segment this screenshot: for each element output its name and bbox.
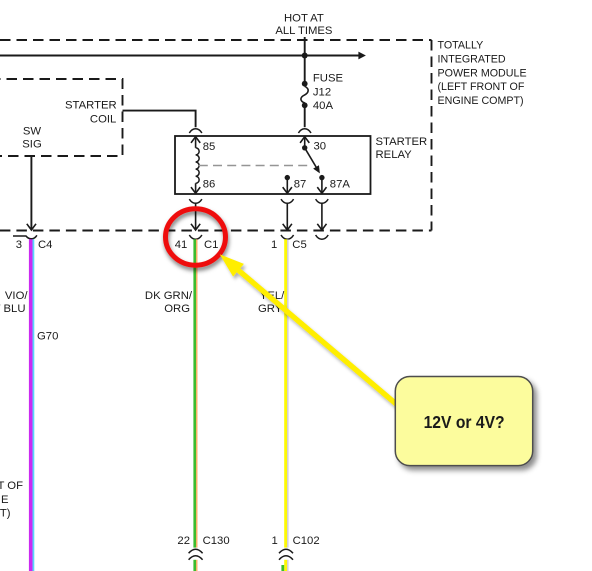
svg-text:C1: C1 xyxy=(204,239,218,251)
relay switch armature 30 to 87A xyxy=(306,150,317,169)
pin 87 terminal arrow down xyxy=(283,180,292,193)
svg-text:STARTER: STARTER xyxy=(376,136,428,148)
wire VIO/LT BLU xyxy=(29,239,34,571)
module TIPM label xyxy=(438,40,527,107)
annotation yellow arrow xyxy=(220,254,401,409)
wire VIO/LT BLU color label xyxy=(0,290,28,315)
wire B+ bus (hot feed) xyxy=(0,37,360,84)
svg-text:SW: SW xyxy=(23,126,42,138)
connector C102 pin 1 labels xyxy=(272,535,320,547)
relay coil terminal pin 85 arrow xyxy=(191,137,200,148)
arrowhead at C5 xyxy=(283,224,292,230)
fuse value label xyxy=(313,72,344,112)
svg-text:1: 1 xyxy=(271,239,277,251)
svg-text:RELAY: RELAY xyxy=(376,149,413,161)
svg-text:12V or 4V?: 12V or 4V? xyxy=(424,412,505,432)
svg-text:22: 22 xyxy=(177,535,190,547)
svg-text:SIG: SIG xyxy=(22,138,41,150)
svg-text:86: 86 xyxy=(203,179,216,191)
relay K1 STARTER RELAY box xyxy=(175,136,371,194)
relay switch armature arrowhead xyxy=(314,166,320,173)
wire YEL/GRN sliver at bottom xyxy=(281,565,284,571)
connector C102 off-page chevrons xyxy=(279,548,293,560)
svg-text:ALL TIMES: ALL TIMES xyxy=(275,25,333,37)
svg-text:FUSE: FUSE xyxy=(313,72,344,84)
connector C5 pin 1 labels xyxy=(271,239,307,251)
svg-text:85: 85 xyxy=(203,141,216,153)
svg-text:C5: C5 xyxy=(292,239,306,251)
module TIPM dashed boundary xyxy=(0,40,432,231)
pin 87 dot xyxy=(285,175,290,180)
connector C5 cup xyxy=(281,235,294,239)
svg-text:FRONT OF: FRONT OF xyxy=(0,480,23,492)
label STARTER RELAY xyxy=(376,136,428,161)
label (left cut) FRONT OF / ENGINE / COMPT) xyxy=(0,480,23,520)
relay internal linkage dashed line xyxy=(199,165,310,167)
relay coil winding xyxy=(196,148,200,184)
wire starter coil to relay pin 85 xyxy=(123,111,196,128)
pin 87A dot xyxy=(319,175,324,180)
wire YEL/GRY xyxy=(284,239,287,571)
svg-text:HOT AT: HOT AT xyxy=(284,12,324,24)
arrowhead at C1 xyxy=(191,224,200,230)
wire 87A stub xyxy=(321,203,323,229)
pin 30 dot xyxy=(302,145,307,150)
connector C1 cup xyxy=(189,235,202,239)
svg-text:3: 3 xyxy=(16,239,22,251)
connector cup below relay (87A) xyxy=(316,199,329,203)
annotation red circle xyxy=(166,209,226,265)
label SW SIG xyxy=(22,126,41,151)
connector C130 pin 22 labels xyxy=(177,535,229,547)
svg-text:C130: C130 xyxy=(203,535,230,547)
svg-text:COIL: COIL xyxy=(90,114,116,126)
pin 87A terminal arrow down xyxy=(317,180,326,193)
connector cup above relay (30) xyxy=(298,129,311,133)
wire SW SIG down xyxy=(30,156,32,229)
svg-text:G70: G70 xyxy=(37,331,58,343)
junction dot on B+ bus xyxy=(302,53,308,59)
wire DK GRN/ORG xyxy=(193,239,197,571)
svg-text:TOTALLY: TOTALLY xyxy=(438,40,484,52)
svg-text:40A: 40A xyxy=(313,100,334,112)
relay contact terminal pin 30 arrow xyxy=(300,137,309,146)
svg-text:POWER MODULE: POWER MODULE xyxy=(438,67,527,79)
svg-text:J12: J12 xyxy=(313,87,331,99)
connector C130 off-page chevrons xyxy=(189,548,203,560)
relay coil terminal pin 86 arrow xyxy=(191,183,200,193)
arrowhead of B+ bus xyxy=(359,52,365,58)
svg-text:STARTER: STARTER xyxy=(65,100,117,112)
wire fuse to relay pin 30 xyxy=(304,108,306,127)
component STARTER COIL dashed box xyxy=(0,79,123,156)
svg-text:LT BLU: LT BLU xyxy=(0,303,26,315)
connector cup 87A below dashed line xyxy=(316,235,329,239)
svg-text:C102: C102 xyxy=(293,535,320,547)
svg-text:(LEFT FRONT OF: (LEFT FRONT OF xyxy=(438,81,525,93)
svg-text:INTEGRATED: INTEGRATED xyxy=(438,54,506,66)
wire DK GRN/ORG color label xyxy=(145,290,193,315)
svg-text:87: 87 xyxy=(294,179,307,191)
connector C1 pin 41 labels xyxy=(175,239,219,251)
svg-text:30: 30 xyxy=(314,141,327,153)
arrowhead 87A stub xyxy=(317,224,326,230)
wire YEL/GRY color label xyxy=(258,290,285,315)
annotation callout 12V or 4V? xyxy=(395,377,532,466)
svg-text:ENGINE COMPT): ENGINE COMPT) xyxy=(438,95,524,107)
arrowhead SW SIG at connector xyxy=(27,224,36,230)
fuse J12 40A xyxy=(301,81,308,108)
svg-text:ENGINE: ENGINE xyxy=(0,494,9,506)
svg-text:ORG: ORG xyxy=(164,303,190,315)
svg-text:1: 1 xyxy=(272,535,278,547)
connector C4 cup with bracket lip to left edge xyxy=(13,235,37,239)
wire 86 to connector C1 xyxy=(195,203,197,229)
svg-text:87A: 87A xyxy=(330,179,351,191)
net HOT AT ALL TIMES label xyxy=(275,12,333,37)
connector cup above relay (85) xyxy=(189,129,202,133)
svg-text:COMPT): COMPT) xyxy=(0,508,11,520)
connector cup below relay (86) xyxy=(189,199,202,203)
svg-text:VIO/: VIO/ xyxy=(5,290,28,302)
connector C4 pin 3 labels xyxy=(16,239,53,251)
svg-text:DK GRN/: DK GRN/ xyxy=(145,290,193,302)
connector cup below relay (87) xyxy=(281,199,294,203)
svg-text:41: 41 xyxy=(175,239,188,251)
label STARTER COIL xyxy=(65,100,117,126)
svg-text:C4: C4 xyxy=(38,239,52,251)
wire 87 to connector C5 xyxy=(286,203,288,229)
